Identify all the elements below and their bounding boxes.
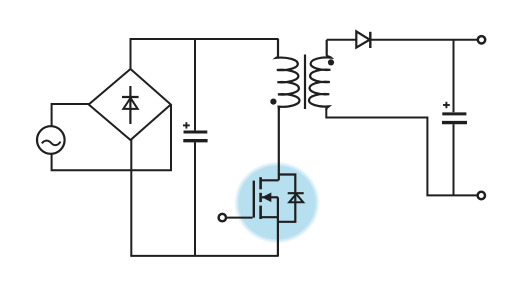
wire: capacitor C1 top lead bbox=[194, 38, 196, 130]
wire: bottom rail bbox=[130, 255, 278, 257]
wire: ac source top to bridge left vertex bbox=[52, 104, 89, 127]
terminal: output + bbox=[478, 36, 485, 43]
mosfet Q1 gate line bbox=[253, 181, 255, 218]
wire: source vertical down to bottom rail bbox=[277, 197, 279, 256]
mosfet Q1 drain lead bbox=[261, 179, 279, 181]
transformer T1 secondary dot bbox=[328, 59, 334, 65]
wire: ac source bottom to bridge right vertex bbox=[52, 105, 171, 170]
wire: secondary bottom to bottom output terminal bbox=[326, 109, 478, 195]
wire: diode cathode to top output terminal bbox=[370, 39, 478, 41]
capacitor C2 bbox=[442, 102, 467, 123]
mosfet Q1 channel segments bbox=[259, 177, 262, 219]
wire: secondary top to diode anode bbox=[327, 39, 357, 41]
ac source V1 bbox=[37, 126, 65, 154]
body diode of Q1 bbox=[288, 193, 304, 202]
mosfet Q1 source lead bbox=[261, 216, 278, 218]
highlight circle over MOSFET bbox=[234, 162, 320, 244]
transformer T1 secondary winding bbox=[309, 40, 331, 110]
wire: bridge top vertex riser to top rail bbox=[130, 39, 132, 69]
terminal: output - bbox=[478, 192, 485, 199]
terminal: gate drive input bbox=[219, 214, 226, 221]
wire: drain vertical to transformer primary bbox=[278, 109, 280, 181]
transformer T1 core bbox=[304, 55, 306, 110]
wire: capacitor C2 bottom lead bbox=[453, 124, 455, 195]
wire: capacitor C2 top lead bbox=[453, 40, 455, 112]
wire: body diode branch bbox=[278, 175, 295, 222]
diode inside bridge bbox=[122, 86, 139, 124]
wire: capacitor C1 bottom lead bbox=[194, 142, 196, 256]
diode D1 bbox=[356, 31, 370, 48]
transformer T1 primary winding bbox=[276, 39, 299, 111]
mosfet Q1 body connection with arrow bbox=[262, 196, 278, 198]
transformer T1 primary dot bbox=[270, 99, 276, 105]
bridge rectifier BR1 bbox=[89, 69, 171, 140]
wire: bridge bottom lead down to bottom rail bbox=[130, 139, 132, 256]
wire: gate terminal to gate bbox=[226, 217, 253, 219]
wire: top rail bbox=[130, 38, 279, 40]
capacitor C1 bbox=[183, 122, 208, 141]
